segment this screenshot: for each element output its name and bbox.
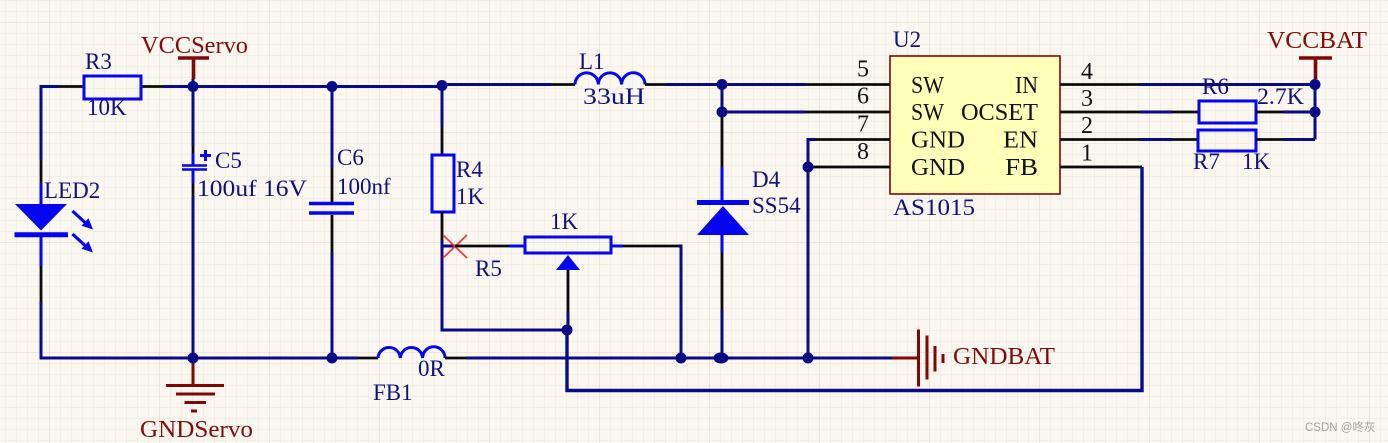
node R5 bottom <box>676 353 687 364</box>
pin 2 EN <box>1003 113 1140 154</box>
label VCCServo <box>141 33 248 59</box>
svg-text:IN: IN <box>1015 73 1038 99</box>
svg-text:R7: R7 <box>1193 149 1220 174</box>
label 33uH <box>583 84 645 109</box>
label 10K <box>87 95 127 120</box>
node VCCBAT IN <box>1310 79 1321 90</box>
svg-text:0R: 0R <box>418 356 446 381</box>
node D4 bottom <box>714 353 729 364</box>
label 100uf 16V <box>197 176 307 201</box>
svg-text:1K: 1K <box>550 209 579 234</box>
label LED2 <box>44 178 100 203</box>
svg-text:R3: R3 <box>85 49 112 74</box>
svg-text:OCSET: OCSET <box>961 100 1038 126</box>
pin 5 SW <box>806 57 944 100</box>
svg-text:EN: EN <box>1003 128 1038 154</box>
label R6 <box>1202 74 1229 99</box>
pin 6 SW <box>806 84 944 127</box>
svg-text:SW: SW <box>911 100 944 126</box>
label 1K (R5) <box>550 209 579 234</box>
pin 7 GND <box>815 112 965 154</box>
wire top bus L1 to U2 <box>666 83 806 86</box>
svg-text:1K: 1K <box>456 184 485 209</box>
bottom bus wire right <box>466 357 892 360</box>
resistor R6 <box>1140 101 1315 123</box>
label 0R <box>418 356 446 381</box>
svg-text:LED2: LED2 <box>44 178 100 203</box>
node R4 top <box>437 80 448 91</box>
resistor R3 <box>58 76 163 99</box>
no-ERC marker <box>443 235 467 258</box>
svg-text:10K: 10K <box>87 95 127 120</box>
svg-text:SW: SW <box>911 73 944 99</box>
label FB1 <box>373 380 413 405</box>
label GNDServo <box>140 417 253 443</box>
svg-text:GND: GND <box>911 128 965 154</box>
label 1K (R4) <box>456 184 485 209</box>
svg-text:SS54: SS54 <box>752 193 801 218</box>
capacitor C5 <box>182 87 211 359</box>
wire R4 to FB node <box>442 240 567 330</box>
label D4 <box>752 167 781 192</box>
node GND column bottom <box>803 353 814 364</box>
node C6 top <box>327 81 338 92</box>
svg-text:C5: C5 <box>215 148 242 173</box>
node R6 VCC <box>1310 107 1321 118</box>
svg-text:U2: U2 <box>893 27 921 52</box>
svg-text:GNDBAT: GNDBAT <box>953 344 1055 370</box>
IC U2 <box>890 56 1060 194</box>
wire SW node vertical <box>721 85 724 113</box>
svg-text:33uH: 33uH <box>583 84 645 109</box>
ground GNDBAT <box>892 330 943 387</box>
svg-text:CSDN @咚灰: CSDN @咚灰 <box>1305 420 1375 434</box>
pin 4 IN <box>1015 59 1140 99</box>
node SW top <box>717 79 728 90</box>
svg-text:GND: GND <box>911 155 965 181</box>
diode D4 <box>697 112 749 358</box>
resistor R4 <box>432 85 454 240</box>
label 1K (R7) <box>1242 149 1271 174</box>
power VCCServo <box>178 58 209 87</box>
svg-text:1K: 1K <box>1242 149 1271 174</box>
node SW pin6 <box>717 107 728 118</box>
svg-text:3: 3 <box>1081 86 1093 112</box>
svg-text:FB: FB <box>1005 155 1038 181</box>
svg-text:R4: R4 <box>456 157 483 182</box>
svg-text:100uf 16V: 100uf 16V <box>197 176 307 201</box>
inductor L1 <box>552 73 666 85</box>
label VCCBAT <box>1267 28 1367 54</box>
svg-text:8: 8 <box>857 139 869 165</box>
wire GND pins to bottom <box>808 140 815 359</box>
label R7 <box>1193 149 1220 174</box>
svg-text:L1: L1 <box>579 49 605 74</box>
ground GNDServo <box>166 358 224 411</box>
label U2 <box>893 27 921 52</box>
capacitor C6 <box>309 87 354 359</box>
svg-text:R6: R6 <box>1202 74 1229 99</box>
node FB wiper <box>562 325 573 336</box>
label 2.7K <box>1257 84 1304 109</box>
svg-text:1: 1 <box>1081 141 1093 167</box>
svg-text:100nf: 100nf <box>337 174 391 199</box>
pin 8 GND <box>812 139 965 181</box>
svg-text:VCCServo: VCCServo <box>141 33 248 59</box>
label C5 <box>215 148 242 173</box>
svg-text:C6: C6 <box>337 145 364 170</box>
node C6 bottom <box>327 353 338 364</box>
svg-text:FB1: FB1 <box>373 380 413 405</box>
svg-text:6: 6 <box>857 84 869 110</box>
svg-text:AS1015: AS1015 <box>893 195 975 220</box>
LED LED2 <box>15 160 94 302</box>
svg-text:4: 4 <box>1081 59 1093 85</box>
svg-text:R5: R5 <box>475 256 502 281</box>
wire LED to bottom bus <box>41 302 193 358</box>
svg-text:D4: D4 <box>752 167 781 192</box>
label SS54 <box>752 193 801 218</box>
wire top bus R3 to L1 <box>163 85 552 87</box>
wire top-left corner to R3 <box>41 87 58 161</box>
label R3 <box>85 49 112 74</box>
potentiometer R5 <box>455 237 678 330</box>
label 100nf <box>337 174 391 199</box>
pin 3 OCSET <box>961 86 1140 126</box>
svg-text:2: 2 <box>1081 113 1093 139</box>
svg-text:GNDServo: GNDServo <box>140 417 253 443</box>
pin 1 FB <box>1005 141 1142 182</box>
bottom bus wire <box>193 357 357 360</box>
node GNDServo <box>188 353 199 364</box>
label AS1015 <box>893 195 975 220</box>
label C6 <box>337 145 364 170</box>
svg-text:5: 5 <box>857 57 869 83</box>
svg-text:VCCBAT: VCCBAT <box>1267 28 1367 54</box>
wire VCC vertical <box>1314 85 1317 140</box>
label GNDBAT <box>953 344 1055 370</box>
wire stub R5 pin1 <box>442 245 456 248</box>
inductor FB1 <box>357 347 466 358</box>
wire IN to VCCBAT <box>1140 83 1315 86</box>
label R4 <box>456 157 483 182</box>
wire pin8 stub <box>808 166 812 169</box>
wire R5 pin2 down <box>678 246 681 358</box>
power VCCBAT <box>1299 58 1332 85</box>
wire FB net <box>567 167 1142 391</box>
label R5 <box>475 256 502 281</box>
wire SW pin6 <box>722 111 806 114</box>
svg-text:2.7K: 2.7K <box>1257 84 1304 109</box>
svg-text:7: 7 <box>857 112 869 138</box>
node VCCServo/top <box>188 81 199 92</box>
node GND pin8 <box>803 162 814 173</box>
label L1 <box>579 49 605 74</box>
resistor R7 <box>1140 130 1315 151</box>
